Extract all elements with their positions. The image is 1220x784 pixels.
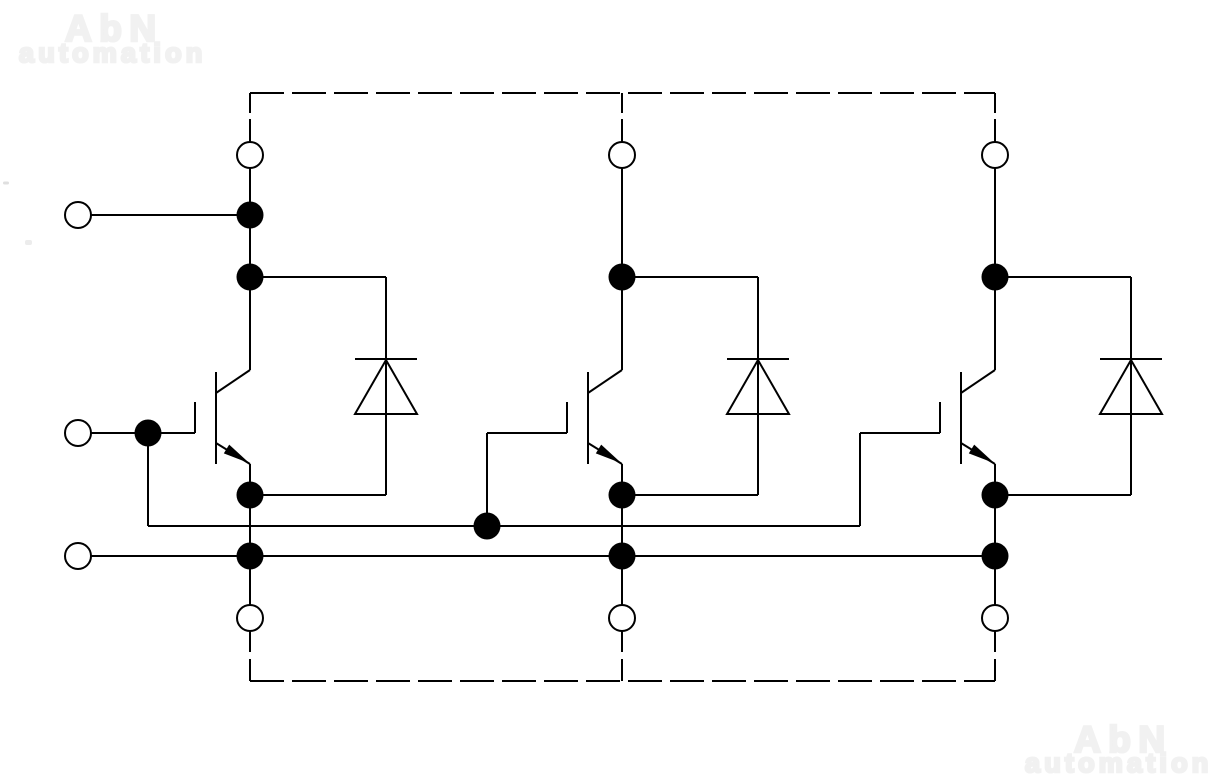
svg-text:automation: automation (19, 38, 207, 68)
wire bottom border of module (dashed) (250, 680, 995, 682)
terminal emitter E3 (open circle) (982, 605, 1008, 631)
node junction leg3 bus (982, 543, 1009, 570)
terminal gate G (open circle left middle) (65, 420, 91, 446)
svg-text:automation: automation (1025, 748, 1213, 778)
node junction leg3 emitter (982, 482, 1009, 509)
wire emitter column leg1 (249, 464, 251, 605)
transistor Q2 (IGBT) (567, 370, 622, 464)
terminal emitter E1 (open circle) (237, 605, 263, 631)
diode D1 (freewheel) (250, 277, 417, 495)
watermark AbN top left (19, 8, 207, 68)
wire gate riser Q3 (860, 433, 940, 526)
node junction leg2 emitter (609, 482, 636, 509)
wire collector column leg2 (621, 168, 623, 370)
node junction gate Q1 (135, 420, 162, 447)
wire bottom stub leg3 (994, 631, 996, 681)
wire gate bus drop (147, 433, 149, 526)
wire collector column leg1 (249, 168, 251, 370)
wire collector column leg3 (994, 168, 996, 370)
wire emitter bus (91, 555, 995, 557)
node junction gate bus star (474, 513, 501, 540)
transistor Q1 (IGBT) (195, 370, 250, 464)
node junction leg1 emitter (237, 482, 264, 509)
node junction leg1 collector (237, 264, 264, 291)
node junction leg2 bus (609, 543, 636, 570)
terminal collector C1 (open circle) (237, 142, 263, 168)
wire emitter column leg3 (994, 464, 996, 605)
wire gate terminal to Q1 gate (91, 432, 195, 434)
watermark AbN bottom right (1025, 719, 1213, 778)
node left margin faint tick (3, 182, 9, 185)
wire emitter column leg2 (621, 464, 623, 605)
wire gate bus horizontal (148, 525, 860, 527)
wire top border of module (dashed) (250, 92, 995, 94)
terminal collector C3 (open circle) (982, 142, 1008, 168)
wire top stub leg3 (994, 93, 996, 142)
terminal aux emitter (open circle left bottom) (65, 543, 91, 569)
wire bottom stub leg1 (249, 631, 251, 681)
node junction leg1 aux collector (237, 202, 264, 229)
wire aux collector to leg1 (91, 214, 250, 216)
diode D2 (freewheel) (622, 277, 789, 495)
node junction leg1 bus (237, 543, 264, 570)
wire bottom stub leg2 (621, 631, 623, 681)
wire gate riser Q2 (487, 433, 567, 526)
terminal aux collector (open circle left top) (65, 202, 91, 228)
terminal collector C2 (open circle) (609, 142, 635, 168)
diode D3 (freewheel) (995, 277, 1162, 495)
transistor Q3 (IGBT) (940, 370, 995, 464)
node junction leg2 collector (609, 264, 636, 291)
node faint smudge (25, 240, 32, 245)
terminal emitter E2 (open circle) (609, 605, 635, 631)
wire top stub leg1 (249, 93, 251, 142)
node junction leg3 collector (982, 264, 1009, 291)
wire top stub leg2 (621, 93, 623, 142)
